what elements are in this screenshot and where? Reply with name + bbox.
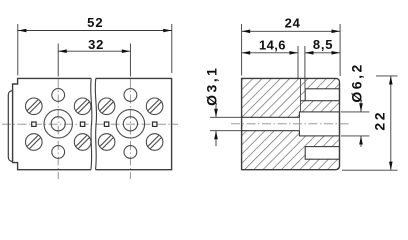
section body hatched xyxy=(242,78,340,169)
internal slot-depth line xyxy=(304,78,306,88)
dim Ø3,1 arrow down xyxy=(214,109,218,118)
break line left xyxy=(91,78,92,169)
pole 2 vertical center line xyxy=(129,79,131,179)
svg-text:52: 52 xyxy=(87,15,104,30)
section top slot xyxy=(305,89,339,101)
left view body outline (right half) xyxy=(96,78,172,169)
dim 14,6 line xyxy=(242,52,298,54)
dim 24 arrow left xyxy=(242,30,251,34)
dim 32 arrow left xyxy=(58,49,67,53)
internal step line xyxy=(300,78,302,112)
dim 22 extension top xyxy=(376,75,398,77)
dim 22 arrow up xyxy=(389,76,393,85)
dim Ø6,2 arrow up xyxy=(359,136,363,145)
channel top edge xyxy=(242,116,299,118)
dim 14,6 arrow right xyxy=(289,51,298,55)
pole 1 top hole xyxy=(52,89,65,102)
left view body outline (left half) xyxy=(13,78,91,169)
svg-text:24: 24 xyxy=(285,16,301,31)
pole 1 screw bottom-right xyxy=(73,132,92,151)
dim Ø3,1 extension top xyxy=(210,116,244,118)
pole 2 screw bottom-right xyxy=(145,132,164,151)
dim Ø6,2 extension top xyxy=(341,111,370,113)
section middle channel xyxy=(243,117,300,130)
pole 2 screw bottom-left xyxy=(97,132,116,151)
pole 1 screw bottom-left xyxy=(24,132,43,151)
pole 1 left square contact xyxy=(32,122,36,126)
section middle chamber xyxy=(299,112,339,136)
dim Ø3,1 leader top xyxy=(215,105,217,118)
break line right xyxy=(95,78,96,169)
pole 1 bottom hole xyxy=(52,146,65,159)
pole 1 screw top-left xyxy=(24,97,43,116)
svg-text:22: 22 xyxy=(372,110,388,131)
horizontal center line (left view) xyxy=(2,123,178,125)
dim 32 arrow right xyxy=(122,49,131,53)
svg-text:Ø3,1: Ø3,1 xyxy=(204,66,220,106)
dim 22 extension bottom xyxy=(342,169,398,171)
dim 8,5 line xyxy=(305,52,340,54)
pole 2 outer circle xyxy=(116,110,144,138)
pole 2 inner circle xyxy=(123,117,137,131)
svg-text:8,5: 8,5 xyxy=(313,37,333,52)
dim 24 extension right xyxy=(339,24,341,76)
dim 24 line xyxy=(242,30,341,32)
pole 2 screw top-left xyxy=(97,97,116,116)
pole 1 screw top-right xyxy=(73,97,92,116)
svg-text:14,6: 14,6 xyxy=(259,38,286,53)
pole 1 outer circle xyxy=(44,110,72,138)
dim 32 extension line right xyxy=(129,44,131,77)
pole 1 right square contact xyxy=(80,122,84,126)
dim 14,6 arrow left xyxy=(242,51,251,55)
section outline xyxy=(242,78,340,169)
dim 22 arrow down xyxy=(389,162,393,171)
dim Ø3,1 extension bottom xyxy=(210,130,244,132)
dim 52 arrow left xyxy=(18,29,27,33)
section top slot bottom edge extension xyxy=(301,100,306,102)
dim 24 extension left xyxy=(241,24,243,76)
dim 8,5 arrow right xyxy=(332,51,341,55)
dim 52 arrow right xyxy=(163,29,172,33)
dim Ø6,2 arrow down xyxy=(359,103,363,112)
channel bottom edge xyxy=(242,130,299,132)
dim Ø3,1 leader bottom xyxy=(215,131,217,147)
svg-text:Ø6,2: Ø6,2 xyxy=(349,62,365,102)
left mounting tab xyxy=(8,91,12,162)
dim Ø6,2 extension bottom xyxy=(341,135,370,137)
svg-text:32: 32 xyxy=(88,37,104,52)
pole 2 top hole xyxy=(124,89,137,102)
pole 1 inner circle xyxy=(51,117,65,131)
pole 2 right square contact xyxy=(153,122,157,126)
dim 52 extension line left xyxy=(17,24,19,76)
dim 52 line xyxy=(18,30,172,32)
dim Ø3,1 arrow up xyxy=(214,131,218,140)
dim 24 arrow right xyxy=(332,30,341,34)
dim Ø6,2 leader bottom xyxy=(360,136,362,147)
section center line xyxy=(231,123,349,125)
dim 52 extension line right xyxy=(171,24,173,73)
pole 2 bottom hole xyxy=(124,146,137,159)
dim 32 extension line left xyxy=(57,44,59,77)
dim 8,5 extension middle xyxy=(304,46,306,78)
pole 2 screw top-right xyxy=(145,97,164,116)
dim Ø6,2 leader top xyxy=(360,100,362,112)
dim 22 line xyxy=(390,76,392,170)
dim 32 line xyxy=(58,50,130,52)
section bottom slot xyxy=(305,147,339,160)
dim 14,6 extension middle xyxy=(297,46,299,78)
dim 8,5 arrow left xyxy=(305,51,314,55)
pole 1 vertical center line xyxy=(57,79,59,179)
pole 2 left square contact xyxy=(104,122,108,126)
